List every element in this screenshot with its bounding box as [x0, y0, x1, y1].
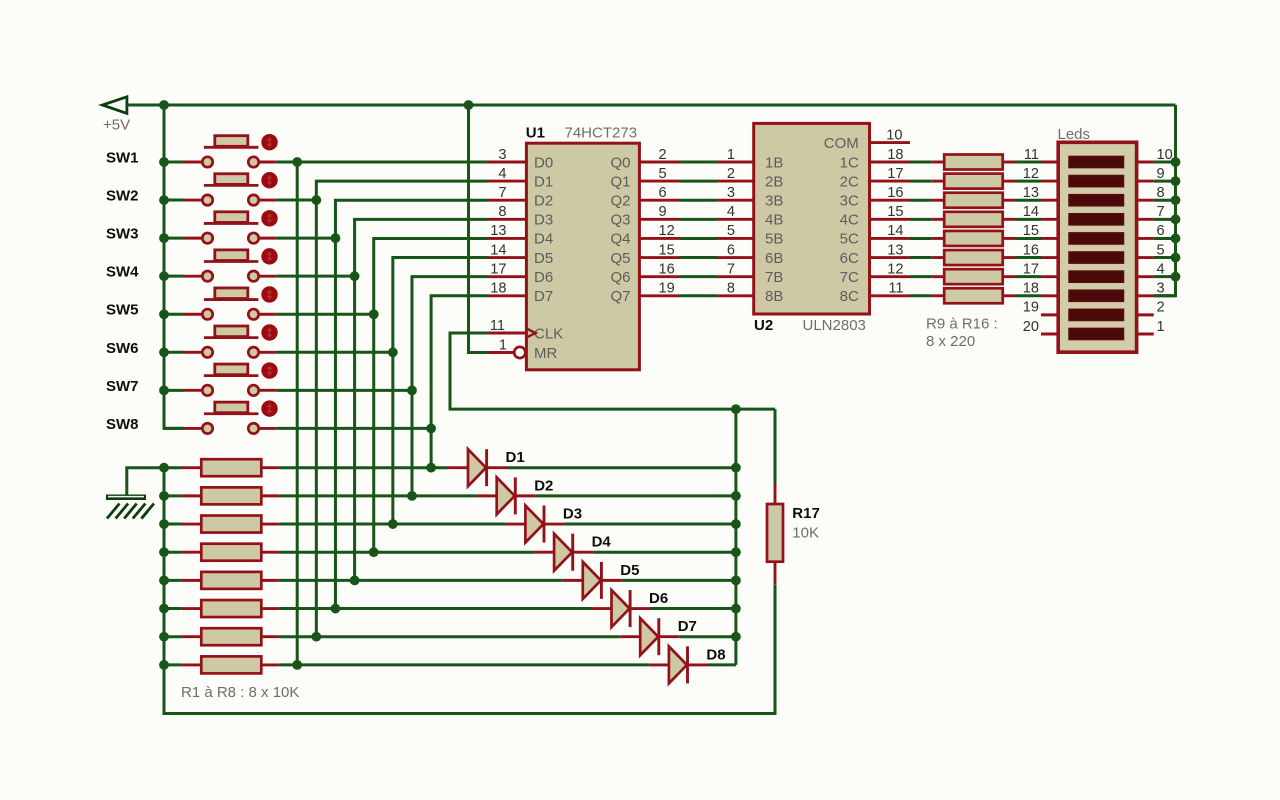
- svg-text:SW7: SW7: [106, 378, 139, 395]
- svg-text:U1: U1: [526, 125, 545, 142]
- svg-text:6: 6: [727, 242, 735, 258]
- svg-text:9: 9: [1157, 166, 1165, 182]
- svg-text:2: 2: [1157, 300, 1165, 316]
- svg-text:10K: 10K: [792, 525, 819, 542]
- svg-text:10: 10: [1157, 147, 1173, 163]
- svg-text:2: 2: [659, 147, 667, 163]
- svg-text:12: 12: [1023, 166, 1039, 182]
- svg-text:15: 15: [887, 204, 903, 220]
- svg-text:6: 6: [1157, 223, 1165, 239]
- svg-text:D5: D5: [534, 250, 553, 267]
- svg-text:11: 11: [490, 318, 505, 334]
- svg-text:R1 à R8 : 8 x 10K: R1 à R8 : 8 x 10K: [181, 684, 299, 701]
- svg-text:Q1: Q1: [610, 173, 630, 190]
- svg-text:CLK: CLK: [534, 325, 563, 342]
- svg-text:D1: D1: [506, 449, 525, 466]
- svg-text:SW3: SW3: [106, 226, 139, 243]
- svg-text:Q0: Q0: [610, 154, 630, 171]
- svg-text:7C: 7C: [840, 269, 859, 286]
- svg-text:18: 18: [490, 281, 506, 297]
- svg-text:2B: 2B: [765, 173, 783, 190]
- svg-text:8: 8: [498, 204, 506, 220]
- svg-text:SW4: SW4: [106, 264, 139, 281]
- svg-text:2: 2: [727, 166, 735, 182]
- svg-text:4B: 4B: [765, 212, 783, 229]
- svg-text:1: 1: [727, 147, 735, 163]
- svg-text:17: 17: [490, 261, 506, 277]
- svg-text:13: 13: [1023, 185, 1039, 201]
- svg-text:Q6: Q6: [610, 269, 630, 286]
- svg-text:15: 15: [1023, 223, 1039, 239]
- svg-text:16: 16: [887, 185, 903, 201]
- svg-text:13: 13: [887, 242, 903, 258]
- svg-text:R9 à R16 :: R9 à R16 :: [926, 316, 998, 333]
- svg-text:12: 12: [659, 223, 675, 239]
- svg-text:8: 8: [727, 281, 735, 297]
- svg-text:D3: D3: [563, 506, 582, 523]
- svg-text:D6: D6: [534, 269, 553, 286]
- svg-text:5: 5: [659, 166, 667, 182]
- svg-text:Q4: Q4: [610, 231, 630, 248]
- svg-text:D7: D7: [534, 288, 553, 305]
- svg-text:Q3: Q3: [610, 212, 630, 229]
- svg-text:7: 7: [1157, 204, 1165, 220]
- svg-text:17: 17: [887, 166, 903, 182]
- svg-text:Q7: Q7: [610, 288, 630, 305]
- svg-text:18: 18: [1023, 281, 1039, 297]
- svg-text:9: 9: [659, 204, 667, 220]
- svg-text:3: 3: [727, 185, 735, 201]
- svg-text:Q2: Q2: [610, 193, 630, 210]
- svg-text:15: 15: [659, 242, 675, 258]
- svg-text:5: 5: [1157, 242, 1165, 258]
- svg-text:4C: 4C: [840, 212, 859, 229]
- svg-text:D6: D6: [649, 590, 668, 607]
- svg-text:8: 8: [1157, 185, 1165, 201]
- svg-text:D8: D8: [706, 646, 725, 663]
- svg-text:5B: 5B: [765, 231, 783, 248]
- svg-text:3C: 3C: [840, 193, 859, 210]
- svg-text:D4: D4: [534, 231, 553, 248]
- svg-text:D7: D7: [678, 618, 697, 635]
- svg-text:14: 14: [490, 242, 506, 258]
- svg-text:D0: D0: [534, 154, 553, 171]
- svg-text:Leds: Leds: [1058, 126, 1091, 143]
- svg-text:3B: 3B: [765, 193, 783, 210]
- svg-text:10: 10: [886, 127, 902, 143]
- svg-text:19: 19: [659, 281, 675, 297]
- svg-text:74HCT273: 74HCT273: [565, 125, 638, 142]
- svg-text:12: 12: [887, 261, 903, 277]
- svg-text:7: 7: [498, 185, 506, 201]
- svg-text:D1: D1: [534, 173, 553, 190]
- svg-text:17: 17: [1023, 261, 1039, 277]
- svg-text:7B: 7B: [765, 269, 783, 286]
- svg-text:D5: D5: [620, 562, 639, 579]
- svg-text:5: 5: [727, 223, 735, 239]
- svg-text:ULN2803: ULN2803: [803, 317, 866, 334]
- svg-text:D2: D2: [534, 193, 553, 210]
- svg-text:Q5: Q5: [610, 250, 630, 267]
- svg-text:SW8: SW8: [106, 416, 139, 433]
- svg-text:11: 11: [1024, 147, 1039, 163]
- svg-text:4: 4: [1157, 261, 1165, 277]
- svg-text:6B: 6B: [765, 250, 783, 267]
- svg-text:14: 14: [887, 223, 903, 239]
- svg-text:8C: 8C: [840, 288, 859, 305]
- svg-text:1: 1: [1157, 319, 1165, 335]
- svg-text:U2: U2: [754, 317, 773, 334]
- svg-text:6: 6: [659, 185, 667, 201]
- svg-text:SW5: SW5: [106, 302, 139, 319]
- svg-text:MR: MR: [534, 345, 557, 362]
- svg-text:4: 4: [498, 166, 506, 182]
- svg-text:1B: 1B: [765, 154, 783, 171]
- svg-text:8B: 8B: [765, 288, 783, 305]
- svg-text:14: 14: [1023, 204, 1039, 220]
- svg-text:R17: R17: [792, 505, 820, 522]
- svg-text:4: 4: [727, 204, 735, 220]
- svg-text:D4: D4: [592, 534, 612, 551]
- svg-text:6C: 6C: [840, 250, 859, 267]
- svg-text:SW2: SW2: [106, 188, 139, 205]
- svg-text:16: 16: [1023, 242, 1039, 258]
- svg-text:3: 3: [1157, 281, 1165, 297]
- svg-text:18: 18: [887, 147, 903, 163]
- svg-text:1C: 1C: [840, 154, 859, 171]
- svg-text:SW6: SW6: [106, 340, 139, 357]
- svg-text:D2: D2: [534, 477, 553, 494]
- svg-text:2C: 2C: [840, 173, 859, 190]
- svg-text:+5V: +5V: [103, 117, 130, 134]
- svg-text:16: 16: [659, 261, 675, 277]
- svg-text:11: 11: [888, 281, 903, 297]
- svg-text:19: 19: [1023, 300, 1039, 316]
- svg-text:7: 7: [727, 261, 735, 277]
- svg-text:13: 13: [490, 223, 506, 239]
- svg-text:SW1: SW1: [106, 150, 139, 167]
- svg-text:COM: COM: [824, 135, 859, 152]
- svg-text:3: 3: [498, 147, 506, 163]
- svg-text:20: 20: [1023, 319, 1039, 335]
- svg-text:D3: D3: [534, 212, 553, 229]
- svg-text:8 x 220: 8 x 220: [926, 333, 975, 350]
- svg-text:5C: 5C: [840, 231, 859, 248]
- svg-text:1: 1: [499, 337, 507, 353]
